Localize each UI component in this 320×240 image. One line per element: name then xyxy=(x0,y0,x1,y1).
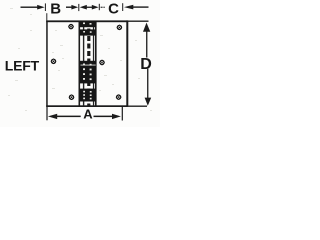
screw hole L3 xyxy=(69,94,75,100)
dim C right arrow (points left) xyxy=(124,5,149,10)
hinge plate bottom edge with extension to D line xyxy=(46,105,128,107)
screw hole L1 xyxy=(68,24,74,30)
knuckle block 2 xyxy=(80,29,97,35)
dim A right extension line xyxy=(122,107,123,121)
svg-text:B: B xyxy=(50,0,61,17)
dim B right arrow xyxy=(66,5,78,10)
svg-text:LEFT: LEFT xyxy=(5,58,40,74)
screw hole L2 xyxy=(51,58,57,64)
svg-text:D: D xyxy=(140,56,152,73)
barrel pin (dashed center) xyxy=(87,21,90,106)
barrel left wall xyxy=(79,21,81,106)
barrel-left extension tick xyxy=(78,4,79,11)
screw hole R2 xyxy=(99,60,105,66)
dim A right arrow (points right) xyxy=(94,114,121,119)
dim D down arrow xyxy=(145,98,152,106)
dim C leader dashes xyxy=(101,7,103,8)
dim D up arrow xyxy=(143,23,150,32)
barrel left inner line xyxy=(83,21,84,106)
plate corner extension stub xyxy=(46,13,47,20)
svg-text:C: C xyxy=(108,0,119,17)
hinge plate left edge xyxy=(46,21,48,107)
dim D vertical line xyxy=(146,26,147,58)
barrel-to-C double arrow xyxy=(80,5,99,10)
hinge plate right edge xyxy=(126,20,128,106)
knuckle block 1 xyxy=(80,21,97,27)
screw hole R1 xyxy=(117,25,123,31)
hinge plate top edge with extension to D line xyxy=(46,20,128,22)
dim A left arrow (points left) xyxy=(48,114,81,119)
dim B left extension tick xyxy=(45,3,46,11)
barrel right inner line xyxy=(93,21,94,106)
dim C right extension tick xyxy=(122,3,123,11)
barrel right wall xyxy=(95,21,97,106)
dim C left extension tick xyxy=(99,4,100,10)
knuckle block 4 xyxy=(80,89,97,102)
knuckle speckles xyxy=(83,23,92,100)
svg-text:A: A xyxy=(83,107,93,122)
faint scan noise xyxy=(8,8,152,111)
screw hole R3 xyxy=(116,94,122,100)
dim A left extension line xyxy=(46,107,47,121)
knuckle block 3 (large) xyxy=(80,61,97,84)
paper background xyxy=(0,0,160,127)
dim B left arrow xyxy=(21,5,45,10)
